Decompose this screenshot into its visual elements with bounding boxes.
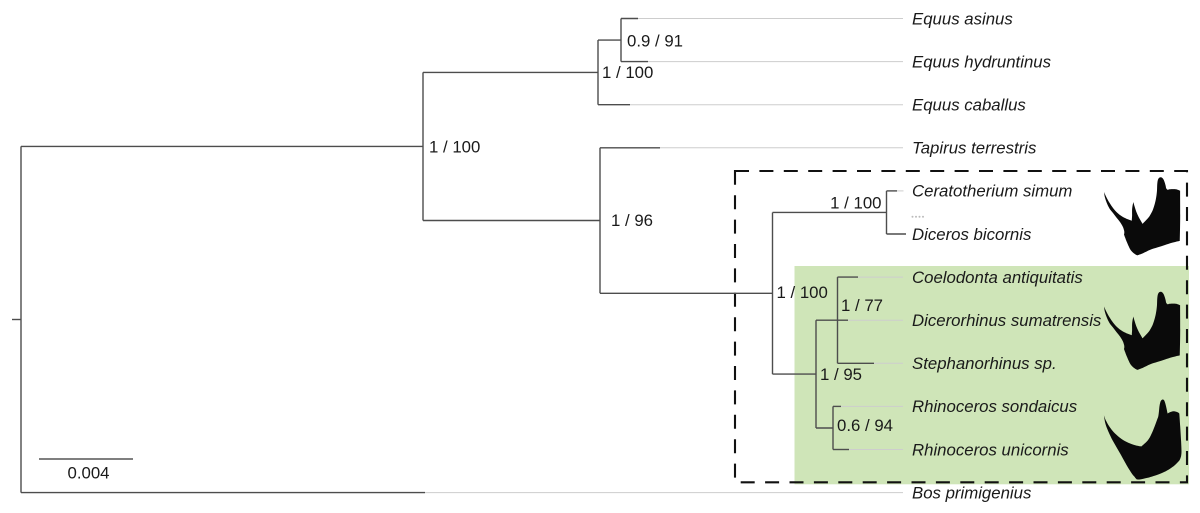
wire branch Rhinoceros sondaicus — [833, 405, 841, 407]
icon rhino silhouette 1 (two-horned, white rhino) — [1104, 177, 1180, 255]
svg-text:1 / 100: 1 / 100 — [602, 63, 653, 82]
wire root to node P (Perissodactyla) — [21, 145, 423, 147]
wire node 1/96 vertical — [599, 148, 601, 293]
wire node R to node CD — [773, 211, 887, 213]
svg-text:1 / 100: 1 / 100 — [830, 194, 881, 213]
wire node 0.9/91 vertical — [620, 19, 622, 62]
wire tip extension Bos primigenius — [425, 492, 903, 494]
wire branch Equus hydruntinus — [621, 61, 648, 63]
svg-text:Tapirus terrestris: Tapirus terrestris — [912, 139, 1037, 158]
wire node 1/96 to node R (rhino clade) — [600, 292, 773, 294]
wire node P to node E (Equus) — [423, 71, 598, 73]
icon rhino silhouette 3 (one-horned, Rhinoceros) — [1104, 400, 1182, 480]
wire branch Ceratotherium simum — [887, 190, 898, 192]
svg-text:0.6 / 94: 0.6 / 94 — [837, 416, 893, 435]
svg-text:1 / 100: 1 / 100 — [777, 283, 828, 302]
wire node E to node 0.9/91 — [598, 39, 621, 41]
wire branch Bos primigenius (dark part) — [21, 492, 425, 494]
wire tip extension Tapirus terrestris — [660, 147, 903, 149]
svg-text:0.004: 0.004 — [68, 464, 110, 483]
wire node P to node 1/96 — [423, 220, 600, 222]
svg-text:Equus hydruntinus: Equus hydruntinus — [912, 52, 1052, 71]
green shaded box (crown rhino clade) — [795, 266, 1190, 484]
wire root vertical — [20, 146, 22, 492]
scale bar — [39, 458, 133, 460]
wire node 1/95 to node 0.6/94 — [816, 427, 833, 429]
svg-text:1 / 77: 1 / 77 — [841, 296, 883, 315]
wire tip extension Coelodonta antiquitatis — [858, 276, 903, 278]
svg-text:Diceros bicornis: Diceros bicornis — [912, 225, 1032, 244]
wire branch Equus asinus — [621, 18, 638, 20]
svg-text:Ceratotherium simum: Ceratotherium simum — [912, 182, 1072, 201]
wire branch Rhinoceros unicornis — [833, 449, 849, 451]
wire node CD vertical — [886, 191, 888, 234]
wire branch Tapirus terrestris — [600, 147, 660, 149]
wire tip extension Equus hydruntinus — [648, 61, 903, 63]
svg-text:Rhinoceros unicornis: Rhinoceros unicornis — [912, 440, 1069, 459]
wire node E vertical — [597, 40, 599, 105]
wire branch Stephanorhinus sp. — [838, 362, 875, 364]
wire branch Diceros bicornis — [887, 233, 907, 235]
wire tip extension Stephanorhinus sp. — [874, 362, 903, 364]
wire branch Equus caballus — [598, 104, 630, 106]
svg-text:Equus asinus: Equus asinus — [912, 9, 1013, 28]
wire branch Dicerorhinus sumatrensis — [838, 319, 849, 321]
node collapsed-branch dots — [912, 216, 925, 218]
wire tip extension Equus caballus — [630, 104, 903, 106]
svg-text:Equus caballus: Equus caballus — [912, 96, 1026, 115]
svg-text:1 / 95: 1 / 95 — [820, 365, 862, 384]
wire node R to node 1/95 — [773, 373, 817, 375]
wire node 0.6/94 vertical — [832, 406, 834, 449]
svg-text:Rhinoceros sondaicus: Rhinoceros sondaicus — [912, 397, 1078, 416]
svg-text:Coelodonta antiquitatis: Coelodonta antiquitatis — [912, 268, 1083, 287]
wire tip extension Dicerorhinus sumatrensis — [848, 319, 903, 321]
wire tip extension Equus asinus — [638, 18, 903, 20]
wire tip extension Rhinoceros sondaicus — [841, 405, 903, 407]
svg-text:0.9 / 91: 0.9 / 91 — [627, 32, 683, 51]
svg-text:Stephanorhinus sp.: Stephanorhinus sp. — [912, 354, 1057, 373]
wire node P vertical — [422, 72, 424, 220]
svg-text:1 / 96: 1 / 96 — [611, 211, 653, 230]
wire branch Coelodonta antiquitatis — [838, 276, 859, 278]
wire root stub — [12, 319, 21, 321]
wire node R vertical — [772, 212, 774, 374]
wire tip extension Rhinoceros unicornis — [849, 449, 903, 451]
svg-text:Bos primigenius: Bos primigenius — [912, 483, 1032, 502]
icon rhino silhouette 2 (two-horned, Sumatran group) — [1104, 292, 1180, 370]
dashed highlight box (Rhinocerotidae) — [735, 171, 1187, 482]
wire tip extension Ceratotherium simum — [897, 190, 904, 192]
svg-text:1 / 100: 1 / 100 — [429, 137, 480, 156]
wire node 1/77 vertical — [837, 277, 839, 363]
wire node 1/95 vertical — [815, 320, 817, 428]
wire node 1/95 to node 1/77 — [816, 319, 838, 321]
svg-text:Dicerorhinus sumatrensis: Dicerorhinus sumatrensis — [912, 311, 1102, 330]
